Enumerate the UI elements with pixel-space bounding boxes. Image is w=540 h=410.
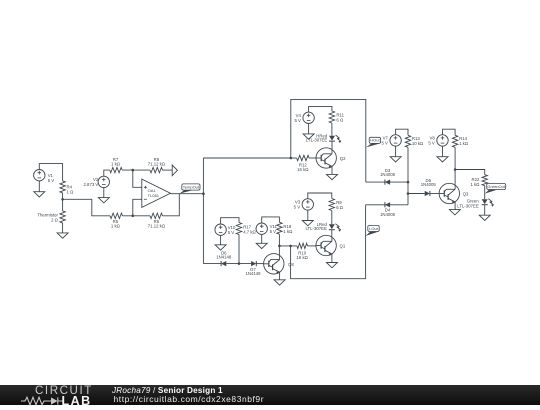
svg-text:5 V: 5 V [48,178,55,183]
svg-text:Q8: Q8 [288,262,294,267]
svg-text:1N4005: 1N4005 [380,212,396,217]
svg-text:10 kΩ: 10 kΩ [412,141,424,146]
svg-text:LTL-307EE: LTL-307EE [457,203,479,208]
svg-text:5 V: 5 V [228,230,235,235]
svg-text:1N4005: 1N4005 [380,172,396,177]
svg-text:LTL-307EE: LTL-307EE [305,226,327,231]
svg-text:71.12 kΩ: 71.12 kΩ [148,162,166,167]
svg-text:16 kΩ: 16 kΩ [297,255,309,260]
svg-text:5 V: 5 V [428,141,435,146]
svg-text:6 Ω: 6 Ω [336,205,344,210]
svg-text:1 kΩ: 1 kΩ [283,229,293,234]
svg-text:Q1: Q1 [340,244,346,249]
svg-text:1N4005: 1N4005 [421,182,437,187]
svg-text:GreenOut: GreenOut [487,184,505,189]
svg-text:1 kΩ: 1 kΩ [459,141,469,146]
svg-text:71.12 kΩ: 71.12 kΩ [148,224,166,229]
svg-text:1 Ω: 1 Ω [67,189,75,194]
svg-text:5 V: 5 V [294,118,301,123]
svg-text:HOut: HOut [370,138,380,143]
svg-text:2 Ω: 2 Ω [51,218,59,223]
svg-text:TempOut: TempOut [183,184,200,189]
svg-text:1N4148: 1N4148 [216,255,232,260]
svg-text:Q3: Q3 [463,191,469,196]
svg-text:5 V: 5 V [381,141,388,146]
svg-text:1 kΩ: 1 kΩ [470,182,480,187]
svg-text:4.7 kΩ: 4.7 kΩ [243,229,256,234]
svg-text:Q2: Q2 [340,156,346,161]
svg-text:LTL-307EE: LTL-307EE [306,138,328,143]
svg-text:LOut: LOut [369,226,379,231]
svg-text:5 V: 5 V [294,205,301,210]
svg-text:6 Ω: 6 Ω [336,117,344,122]
svg-text:5 V: 5 V [270,229,277,234]
svg-text:1 kΩ: 1 kΩ [111,162,121,167]
svg-text:1N4148: 1N4148 [245,271,261,276]
svg-text:TL081: TL081 [148,193,160,198]
svg-text:1 kΩ: 1 kΩ [111,224,121,229]
svg-text:16 kΩ: 16 kΩ [297,167,309,172]
svg-text:2.873 V: 2.873 V [83,182,98,187]
